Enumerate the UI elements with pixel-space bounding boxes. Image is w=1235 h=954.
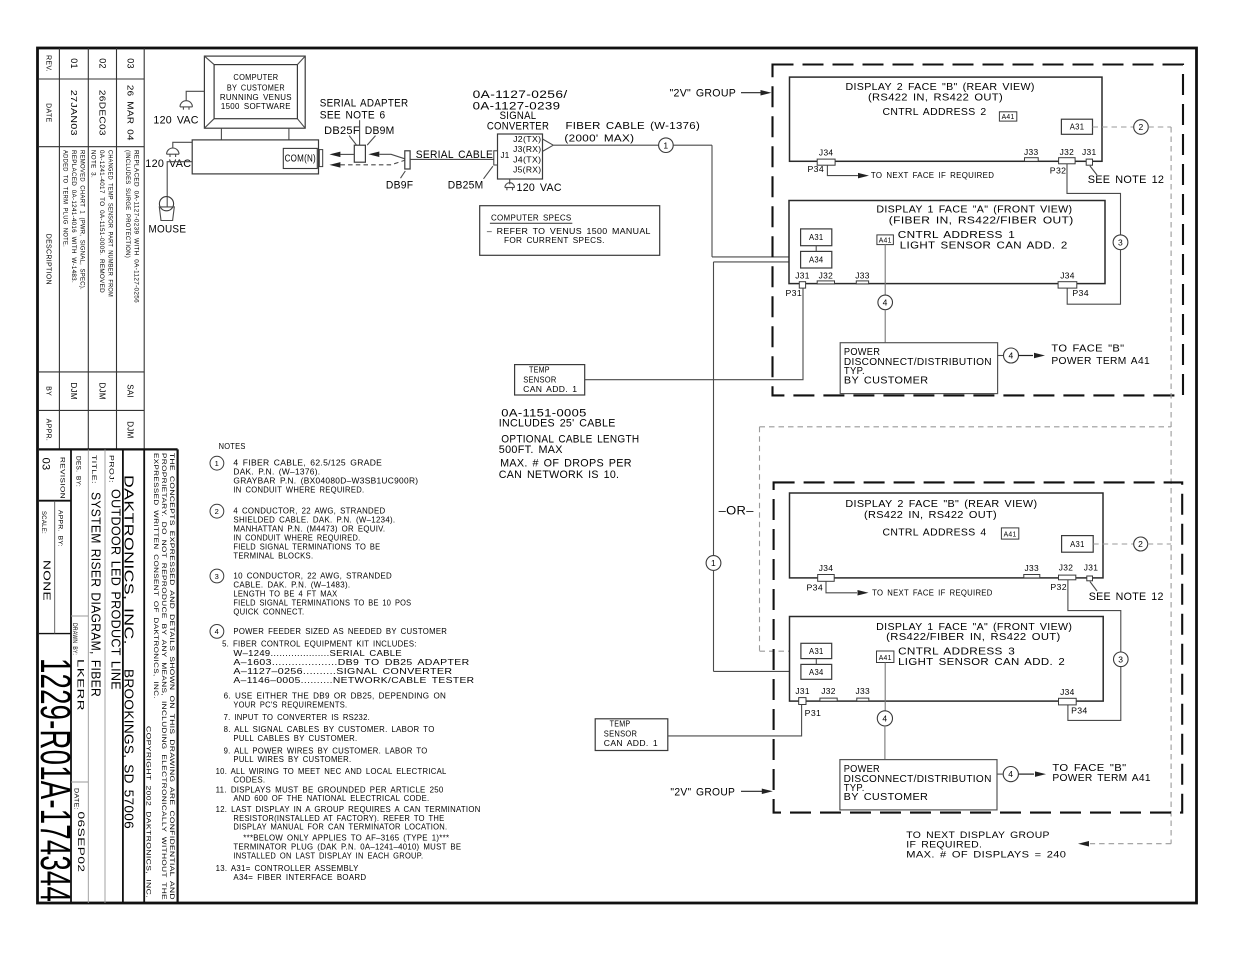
svg-text:J31: J31 [1084, 564, 1099, 573]
monitor (computer display) [204, 56, 305, 128]
connector J34 (disp1 grp2) [1059, 698, 1077, 705]
leader to see-note-12 (grp2) [1090, 582, 1097, 592]
leader DB9F [401, 171, 406, 178]
arrow into COM port (lower, dashed path) [329, 162, 340, 168]
power wire from A41 [884, 245, 886, 296]
svg-text:P34: P34 [1072, 289, 1089, 298]
vertical dashed riser (next group) [1170, 127, 1172, 844]
wire plug to CPU [173, 142, 192, 148]
fiber output funnel upper [543, 139, 554, 145]
svg-text:4: 4 [215, 627, 219, 636]
svg-text:J31: J31 [1082, 148, 1097, 157]
svg-text:2: 2 [1138, 539, 1143, 549]
svg-text:A31: A31 [809, 647, 824, 656]
next-face arrowhead (grp2) [858, 590, 869, 596]
svg-text:A31: A31 [1070, 540, 1085, 549]
svg-text:OUTDOOR LED PRODUCT LINE: OUTDOOR LED PRODUCT LINE [109, 489, 124, 690]
svg-text:DAKTRONICS, INC.: DAKTRONICS, INC. [122, 475, 136, 645]
svg-text:TO NEXT FACE IF REQUIRED: TO NEXT FACE IF REQUIRED [871, 171, 994, 180]
svg-text:P34: P34 [807, 584, 824, 593]
A31-A34 link [815, 246, 817, 252]
2V group arrowhead (bottom) [762, 789, 773, 795]
fiber wire [673, 144, 712, 146]
arrow line [1019, 355, 1034, 357]
svg-text:COM(N): COM(N) [285, 154, 316, 165]
note 2 [210, 504, 224, 518]
power wire from A41 (grp2) [884, 663, 886, 711]
svg-text:J3(RX): J3(RX) [513, 145, 541, 154]
wire to next face (grp2) [826, 581, 857, 593]
fiber interface A34 (disp1 grp1) [801, 251, 832, 268]
svg-text:J2(TX): J2(TX) [513, 135, 541, 144]
svg-text:A41: A41 [1004, 532, 1017, 539]
svg-text:MAX. # OF DISPLAYS = 240: MAX. # OF DISPLAYS = 240 [906, 849, 1066, 860]
svg-text:TERMINAL BLOCKS.: TERMINAL BLOCKS. [233, 551, 313, 561]
dashed branch to group 2 [760, 426, 1172, 428]
svg-text:DES. BY:: DES. BY: [75, 456, 81, 487]
svg-text:–OR–: –OR– [719, 505, 755, 517]
display 1 face A box (group 2) [790, 617, 1104, 702]
svg-text:1: 1 [663, 140, 668, 150]
svg-text:DISCONNECT/DISTRIBUTION: DISCONNECT/DISTRIBUTION [844, 357, 992, 368]
fiber riser to group 2 [713, 262, 715, 556]
next-display-group arrowhead [1078, 841, 1089, 847]
svg-text:DJM: DJM [69, 382, 78, 399]
to-face-B arrowhead (grp1) [1034, 353, 1045, 359]
svg-text:J1: J1 [501, 151, 510, 160]
2V group arrow line (bottom) [741, 790, 763, 792]
svg-text:P32: P32 [1050, 583, 1067, 592]
temp sensor wire to J31/P31 (grp1) [585, 288, 803, 379]
svg-text:NOTES: NOTES [219, 441, 246, 451]
svg-text:IN CONDUIT WHERE REQUIRED.: IN CONDUIT WHERE REQUIRED. [233, 485, 364, 495]
svg-text:DISPLAY 2 FACE "B" (REAR VIEW): DISPLAY 2 FACE "B" (REAR VIEW) [845, 499, 1037, 510]
svg-text:PROPRIETARY. DO NOT REPRODUCE: PROPRIETARY. DO NOT REPRODUCE BY ANY MEA… [160, 453, 166, 900]
svg-text:PROJ:: PROJ: [108, 455, 114, 483]
svg-text:BY CUSTOMER: BY CUSTOMER [844, 792, 929, 803]
svg-text:01: 01 [69, 58, 79, 69]
dashed RS422 out wire [1093, 126, 1134, 128]
dashed direct DB9 wire [340, 160, 404, 164]
arrow into adapter [368, 152, 379, 158]
connector J33 (disp1 grp1) [856, 281, 868, 284]
svg-text:4: 4 [1008, 769, 1013, 779]
svg-text:BY CUSTOMER: BY CUSTOMER [227, 84, 285, 93]
svg-text:J33: J33 [1025, 564, 1040, 573]
A31-A34 link (grp2) [815, 659, 817, 665]
controller A31 (disp1 grp1) [801, 229, 832, 246]
svg-text:YOUR PC'S REQUIREMENTS.: YOUR PC'S REQUIREMENTS. [233, 700, 347, 710]
svg-text:DISPLAY 2 FACE "B" (REAR VIEW): DISPLAY 2 FACE "B" (REAR VIEW) [846, 82, 1035, 93]
fiber interface A34 (disp1 grp2) [801, 664, 832, 679]
svg-text:CNTRL ADDRESS 4: CNTRL ADDRESS 4 [883, 528, 987, 539]
svg-text:03: 03 [40, 458, 52, 471]
svg-text:BY CUSTOMER: BY CUSTOMER [844, 375, 929, 386]
svg-text:SERIAL ADAPTER: SERIAL ADAPTER [320, 97, 409, 109]
svg-text:1: 1 [711, 558, 716, 568]
svg-text:J31: J31 [795, 687, 810, 696]
svg-text:A–1146–0005..........NETWORK/C: A–1146–0005..........NETWORK/CABLE TESTE… [233, 675, 474, 685]
svg-text:4: 4 [882, 713, 887, 723]
svg-text:SENSOR: SENSOR [604, 729, 637, 739]
svg-text:TO FACE "B": TO FACE "B" [1051, 343, 1124, 354]
svg-text:27JAN03: 27JAN03 [69, 90, 79, 136]
fiber output funnel lower [543, 145, 554, 151]
wire adapter to COM [340, 153, 354, 155]
svg-text:J31: J31 [795, 272, 810, 281]
temp sensor box (group 1) [515, 365, 585, 395]
"2V" group 1 dashed border [773, 65, 1184, 396]
fiber riser continues [713, 570, 715, 671]
svg-text:3: 3 [1118, 654, 1123, 664]
svg-text:26DEC03: 26DEC03 [97, 90, 107, 136]
cable tag circle 4 (grp1) [878, 295, 893, 310]
svg-text:J33: J33 [855, 272, 870, 281]
leader to see-note-12 [1090, 166, 1097, 175]
svg-text:A41: A41 [879, 238, 892, 245]
svg-text:TEMP: TEMP [529, 364, 550, 374]
cable tag circle 4 right (grp2) [1003, 767, 1018, 782]
fiber wire into A34 (grp1) [712, 256, 801, 258]
svg-text:LIGHT SENSOR CAN ADD. 2: LIGHT SENSOR CAN ADD. 2 [898, 657, 1065, 668]
svg-text:REMOVED CHART 1 (PWR, SIGNAL,: REMOVED CHART 1 (PWR, SIGNAL, SPEC). [79, 150, 86, 290]
A41 box (disp1 grp2) [877, 651, 894, 663]
next-face arrowhead [858, 173, 869, 179]
connector J31 (disp1 grp1) [799, 282, 805, 288]
svg-text:"2V" GROUP: "2V" GROUP [670, 88, 737, 100]
svg-text:REV.: REV. [45, 55, 52, 72]
svg-text:A31: A31 [809, 233, 824, 242]
svg-text:QUICK CONNECT.: QUICK CONNECT. [233, 606, 304, 616]
svg-text:P31: P31 [786, 289, 803, 298]
title block grid [39, 448, 178, 450]
svg-text:CNTRL ADDRESS 1: CNTRL ADDRESS 1 [898, 230, 1016, 241]
svg-text:"2V" GROUP: "2V" GROUP [670, 787, 735, 799]
svg-text:J34: J34 [1060, 688, 1075, 697]
wire DB9F to adapter [379, 154, 404, 159]
svg-text:DJM: DJM [125, 421, 134, 438]
svg-text:J32: J32 [1060, 148, 1075, 157]
svg-text:3: 3 [215, 572, 219, 581]
svg-text:(INCLUDES SURGE PROTECTION): (INCLUDES SURGE PROTECTION) [124, 150, 131, 258]
svg-text:SYSTEM RISER DIAGRAM, FIBER: SYSTEM RISER DIAGRAM, FIBER [89, 492, 104, 697]
controller A31 (disp2 grp1) [1061, 119, 1092, 134]
cable tag circle 2 (grp1) [1134, 120, 1149, 135]
leader DB25F [349, 136, 356, 146]
svg-text:2: 2 [1138, 122, 1143, 132]
svg-text:(RS422/FIBER IN, RS422 OUT): (RS422/FIBER IN, RS422 OUT) [886, 632, 1060, 643]
svg-text:P32: P32 [1050, 167, 1067, 176]
svg-text:06SEP02: 06SEP02 [75, 812, 86, 873]
arrow into COM port (upper) [329, 152, 340, 158]
svg-text:CAN ADD. 1: CAN ADD. 1 [604, 738, 658, 748]
cable tag circle 1 (top) [659, 138, 674, 153]
2V group arrow line [741, 92, 762, 94]
svg-text:LKERR: LKERR [75, 659, 86, 711]
mouse cord [167, 162, 192, 207]
svg-text:TITLE:: TITLE: [90, 455, 96, 484]
leader line to adapter [359, 120, 361, 145]
svg-text:J34: J34 [819, 564, 834, 573]
plug stem to converter [509, 179, 511, 184]
svg-text:FIBER CABLE (W-1376): FIBER CABLE (W-1376) [566, 120, 701, 132]
svg-text:1500 SOFTWARE: 1500 SOFTWARE [221, 102, 291, 111]
cable tag circle 3 (grp2) [1114, 652, 1129, 667]
connector J34 (disp2 grp2) [818, 575, 835, 582]
svg-text:INSTALLED ON LAST DISPLAY IN E: INSTALLED ON LAST DISPLAY IN EACH GROUP. [233, 850, 423, 860]
dashed wire to riser [1148, 126, 1171, 128]
svg-text:CAN ADD. 1: CAN ADD. 1 [523, 384, 577, 394]
svg-text:THE CONCEPTS EXPRESSED AND DET: THE CONCEPTS EXPRESSED AND DETAILS SHOWN… [168, 453, 174, 900]
cable tag circle 3 (grp1) [1113, 235, 1128, 250]
svg-text:POWER FEEDER SIZED AS NEEDED B: POWER FEEDER SIZED AS NEEDED BY CUSTOMER [233, 626, 447, 636]
DB9F connector [405, 151, 410, 169]
svg-text:4: 4 [883, 297, 888, 307]
svg-text:(FIBER IN, RS422/FIBER OUT): (FIBER IN, RS422/FIBER OUT) [889, 216, 1074, 227]
svg-text:DB25F: DB25F [324, 125, 360, 137]
dashed wire to riser (grp2) [1148, 543, 1171, 545]
svg-text:J5(RX): J5(RX) [513, 166, 541, 175]
svg-text:POWER TERM A41: POWER TERM A41 [1051, 356, 1150, 367]
svg-text:1229-R01A-174344: 1229-R01A-174344 [31, 658, 79, 902]
svg-text:FOR CURRENT SPECS.: FOR CURRENT SPECS. [504, 236, 605, 245]
svg-text:A34: A34 [809, 256, 824, 265]
fiber return wire (grp1) [714, 261, 801, 263]
RS422 wire display2-display1 (grp2) [1068, 580, 1121, 652]
dashed drop to A31 grp2 [759, 427, 761, 651]
svg-text:MOUSE: MOUSE [149, 223, 187, 235]
svg-text:SENSOR: SENSOR [523, 375, 556, 385]
note 1 [210, 456, 224, 470]
power wire to disconnect [884, 310, 886, 343]
to-face-B arrowhead (grp2) [1035, 771, 1046, 777]
svg-text:CNTRL ADDRESS 2: CNTRL ADDRESS 2 [883, 107, 987, 118]
CPU box [192, 140, 318, 174]
svg-text:A34: A34 [809, 668, 824, 677]
"2V" group 2 dashed border [774, 482, 1183, 812]
connector J34 (disp1 grp1) [1058, 282, 1077, 288]
cable tag circle 4 (grp2) [877, 711, 892, 726]
svg-text:DISPLAY 1 FACE "A" (FRONT VIEW: DISPLAY 1 FACE "A" (FRONT VIEW) [876, 204, 1072, 215]
svg-text:J33: J33 [1024, 148, 1039, 157]
serial cable wire into J1 [410, 158, 494, 160]
RS422 wire to J34 display1 (grp2) [1068, 667, 1121, 721]
power disconnect box (group 2) [840, 760, 997, 810]
mouse cord through dome [166, 197, 168, 207]
dashed into A31 grp2 [760, 650, 801, 652]
svg-text:A34= FIBER INTERFACE BOARD: A34= FIBER INTERFACE BOARD [233, 872, 366, 882]
svg-text:CODES.: CODES. [233, 774, 265, 784]
svg-text:REVISION: REVISION [59, 457, 66, 499]
svg-text:– REFER TO VENUS 1500 MANUAL: – REFER TO VENUS 1500 MANUAL [487, 227, 651, 236]
monitor stand [220, 128, 222, 140]
svg-text:J32: J32 [821, 687, 836, 696]
wire plug to monitor [186, 91, 204, 100]
svg-text:COMPUTER SPECS: COMPUTER SPECS [491, 213, 572, 223]
svg-text:120 VAC: 120 VAC [517, 182, 562, 194]
120 VAC plug (converter) [505, 183, 515, 188]
wire to next face [827, 165, 858, 175]
connector J32 (disp2 grp2) [1059, 575, 1076, 580]
svg-text:DB9F: DB9F [386, 180, 414, 192]
A41 box (disp2 grp2) [1001, 528, 1018, 539]
wire to circle 4 (grp2) [997, 773, 1003, 775]
connector J33 (disp2 grp2) [1024, 575, 1040, 578]
svg-text:A41: A41 [879, 655, 892, 662]
RS422 wire to J34 display1 (grp1) [1067, 250, 1120, 305]
svg-text:J32: J32 [1059, 564, 1074, 573]
svg-text:BY: BY [45, 386, 52, 396]
svg-text:DESCRIPTION: DESCRIPTION [45, 234, 52, 285]
display 2 face B box (group 2) [790, 493, 1104, 578]
temp sensor box (group 2) [595, 719, 668, 751]
svg-text:120 VAC: 120 VAC [145, 158, 191, 170]
svg-text:P34: P34 [808, 165, 825, 174]
controller A31 (disp1 grp2) [801, 643, 832, 658]
svg-text:MAX. # OF DROPS PER: MAX. # OF DROPS PER [500, 458, 632, 470]
signal converter box U1 [498, 134, 543, 179]
RS422 wire display2-display1 (grp1) [1067, 164, 1121, 235]
svg-text:1: 1 [215, 459, 219, 468]
svg-text:SEE NOTE 6: SEE NOTE 6 [320, 110, 386, 122]
controller A31 (disp2 grp2) [1062, 536, 1094, 553]
svg-text:CHANGED TEMP SENSOR PART NUMBE: CHANGED TEMP SENSOR PART NUMBER FROM [107, 150, 114, 297]
svg-text:BROOKINGS, SD 57006: BROOKINGS, SD 57006 [122, 669, 136, 829]
svg-text:REPLACED 0A-1241-4016 WITH W-1: REPLACED 0A-1241-4016 WITH W-1483. [70, 150, 77, 283]
svg-text:RUNNING VENUS: RUNNING VENUS [220, 93, 292, 102]
svg-text:J34: J34 [1060, 272, 1075, 281]
svg-text:NONE: NONE [41, 560, 53, 601]
connector J31 (disp2 grp1) [1086, 159, 1092, 165]
dashed to next display group [1090, 843, 1171, 845]
svg-text:J32: J32 [819, 272, 834, 281]
svg-text:4: 4 [1008, 351, 1013, 361]
svg-text:(RS422 IN, RS422 OUT): (RS422 IN, RS422 OUT) [868, 93, 1003, 104]
A41 box (disp2 grp1) [999, 112, 1016, 121]
J1 connector bracket [494, 151, 498, 165]
svg-text:CONVERTER: CONVERTER [487, 120, 549, 132]
svg-text:DATE:: DATE: [73, 788, 79, 810]
svg-text:SEE NOTE 12: SEE NOTE 12 [1089, 591, 1164, 603]
revision table grid [58, 48, 60, 449]
svg-text:INCLUDES 25' CABLE: INCLUDES 25' CABLE [499, 417, 616, 429]
cable tag circle 4 right (grp1) [1004, 348, 1019, 363]
svg-text:0A-1127-0256/: 0A-1127-0256/ [473, 89, 569, 101]
fiber wire to circle 1 [553, 144, 658, 146]
svg-text:P34: P34 [1071, 707, 1088, 716]
svg-text:CAN NETWORK IS 10.: CAN NETWORK IS 10. [499, 469, 620, 481]
svg-text:J4(TX): J4(TX) [513, 155, 541, 164]
power wire to disconnect (grp2) [884, 726, 886, 760]
svg-text:02: 02 [97, 58, 107, 69]
svg-text:APPR.: APPR. [45, 419, 52, 442]
svg-text:TEMP: TEMP [610, 719, 631, 729]
cable tag circle 2 (grp2) [1134, 537, 1148, 551]
120 VAC plug (CPU) [167, 148, 179, 154]
svg-text:DISCONNECT/DISTRIBUTION: DISCONNECT/DISTRIBUTION [844, 774, 992, 785]
connector J32 (disp1 grp1) [817, 281, 834, 284]
display 1 face A box (group 1) [789, 201, 1105, 284]
svg-text:LIGHT SENSOR CAN ADD. 2: LIGHT SENSOR CAN ADD. 2 [900, 241, 1068, 252]
svg-text:AND 600 OF THE NATIONAL ELECTR: AND 600 OF THE NATIONAL ELECTRICAL CODE. [233, 793, 429, 803]
computer specs box [480, 206, 660, 256]
underline [490, 222, 572, 224]
svg-text:SAI: SAI [125, 384, 134, 398]
svg-text:DRAWN BY:: DRAWN BY: [71, 623, 77, 655]
svg-text:PULL CABLES BY CUSTOMER.: PULL CABLES BY CUSTOMER. [233, 733, 357, 743]
leader DB25M [484, 166, 493, 179]
svg-text:(RS422 IN, RS422 OUT): (RS422 IN, RS422 OUT) [864, 510, 997, 521]
svg-text:PULL WIRES BY CUSTOMER.: PULL WIRES BY CUSTOMER. [233, 754, 351, 764]
svg-text:0A-1241-4017 TO 0A-1151-0005.: 0A-1241-4017 TO 0A-1151-0005. REMOVED [98, 150, 105, 293]
fiber wire into A34 (grp2) [714, 670, 801, 672]
svg-text:DB25M: DB25M [448, 180, 484, 192]
note 4 [210, 625, 224, 639]
svg-text:POWER TERM A41: POWER TERM A41 [1052, 773, 1151, 784]
wire to circle 4 [998, 355, 1004, 357]
svg-text:CNTRL ADDRESS 3: CNTRL ADDRESS 3 [898, 647, 1015, 658]
svg-text:COPYRIGHT 2002 DAKTRONICS, INC: COPYRIGHT 2002 DAKTRONICS, INC. [145, 726, 151, 898]
120 VAC plug (monitor) [180, 101, 192, 107]
power disconnect box (group 1) [840, 343, 997, 394]
connector J33 (disp1 grp2) [857, 698, 869, 701]
svg-text:REPLACED 0A-1127-0239 WITH 0A-: REPLACED 0A-1127-0239 WITH 0A-1127-0256 [133, 150, 140, 303]
svg-text:J33: J33 [856, 687, 871, 696]
svg-text:DJM: DJM [97, 382, 106, 399]
svg-text:ADDED TO TERM PLUG NOTE.: ADDED TO TERM PLUG NOTE. [62, 150, 69, 247]
svg-text:DATE: DATE [45, 103, 52, 122]
COM(N) port box [283, 148, 317, 168]
svg-text:EXPRESSED WRITTEN CONSENT OF D: EXPRESSED WRITTEN CONSENT OF DAKTRONICS,… [152, 453, 158, 699]
display 2 face B box (group 1) [790, 77, 1103, 161]
svg-text:(2000' MAX): (2000' MAX) [564, 132, 634, 144]
connector J32 (disp1 grp2) [820, 698, 837, 701]
svg-text:DISPLAY MANUAL FOR CAN TERMINA: DISPLAY MANUAL FOR CAN TERMINATOR LOCATI… [233, 822, 447, 832]
svg-text:03: 03 [125, 58, 135, 69]
arrow line (grp2) [1018, 773, 1034, 775]
leader DB9M [367, 136, 375, 146]
dashed RS422 out wire (grp2) [1093, 543, 1134, 545]
2V group arrowhead [761, 90, 772, 96]
svg-text:500FT. MAX: 500FT. MAX [499, 444, 563, 456]
svg-text:SCALE:: SCALE: [40, 511, 46, 534]
connector J34 (disp2 grp1) [817, 159, 835, 165]
fiber riser down [711, 145, 713, 257]
svg-text:P31: P31 [805, 709, 822, 718]
svg-text:A31: A31 [1070, 123, 1085, 132]
svg-text:2: 2 [215, 507, 219, 516]
connector J31 (disp1 grp2) [799, 698, 806, 705]
svg-text:26 MAR 04: 26 MAR 04 [125, 85, 135, 141]
svg-text:SEE NOTE 12: SEE NOTE 12 [1088, 174, 1165, 186]
svg-text:TO NEXT FACE IF REQUIRED: TO NEXT FACE IF REQUIRED [872, 588, 993, 597]
temp sensor wire to J31/P31 (grp2) [668, 705, 802, 736]
note 3 [210, 569, 224, 583]
svg-text:NOTE 3.: NOTE 3. [90, 150, 97, 178]
connector J33 (disp2 grp1) [1025, 158, 1039, 162]
svg-text:COMPUTER: COMPUTER [233, 73, 278, 82]
connector J31 (disp2 grp2) [1087, 576, 1093, 581]
cable tag circle 1 (bottom) [706, 556, 721, 571]
svg-text:120 VAC: 120 VAC [153, 114, 198, 126]
connector J32 (disp2 grp1) [1059, 158, 1076, 164]
serial adapter box [354, 145, 365, 162]
svg-text:3: 3 [1118, 237, 1123, 247]
svg-text:DB9M: DB9M [365, 125, 395, 137]
svg-text:J34: J34 [819, 148, 834, 157]
svg-text:APPR. BY:: APPR. BY: [57, 510, 63, 547]
A41 box (disp1 grp1) [877, 235, 894, 245]
